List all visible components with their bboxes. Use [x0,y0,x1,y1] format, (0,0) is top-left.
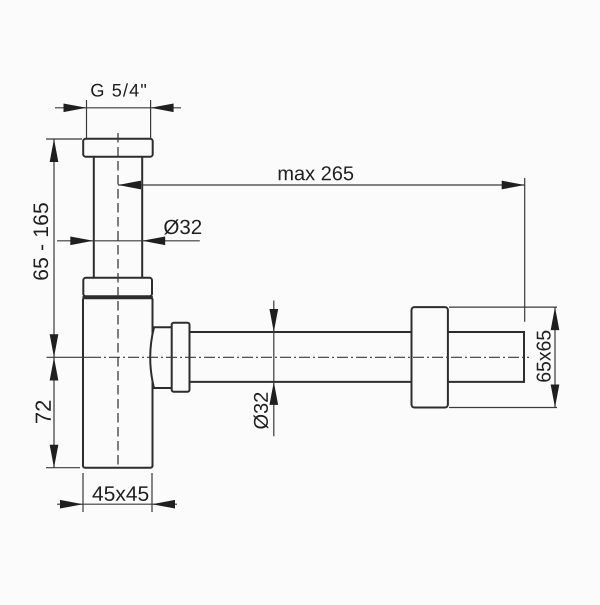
dimension 45x45: dimension line [57,503,177,505]
label 65x65 [537,331,551,382]
dimension max 265: left arrow [118,181,141,190]
dimension 65-165: bottom arrow [50,334,59,357]
outlet pipe end cap [523,331,525,383]
dimension 72: top arrow [50,358,59,381]
dimension 45x45: right arrow [152,500,175,509]
dimension G 5/4: dimension line [55,107,181,109]
label G 5/4" [91,83,146,96]
top flange nut (G 5/4) [83,139,153,157]
dimension max 265: dimension line [118,184,525,186]
inlet pipe left wall [93,157,95,278]
dimension 45x45: left arrow [60,500,83,509]
dimension max 265: right extension line [524,178,526,322]
dimension outlet diameter: bottom arrow [269,382,278,405]
dimension G 5/4: left arrow [64,103,87,112]
dimension 65x65: top arrow [551,307,560,330]
dimension 65-165: top extension line [46,138,82,140]
outlet pipe top wall (left of escutcheon) [190,331,412,333]
label outlet diameter Ø32 [253,393,268,429]
label 65 - 165 [33,203,48,280]
dimension outlet diameter: top arrow [269,309,278,332]
dimension 45x45: left extension line [82,473,84,512]
dimension G 5/4: right arrow [151,103,174,112]
dimension inlet diameter: right arrow [142,236,165,245]
compression olive at outlet [150,327,172,388]
outlet pipe bottom wall (left of escutcheon) [190,381,412,383]
dimension 65x65: dimension line [554,307,556,407]
dimension G 5/4: extension line left [86,100,88,139]
outlet nut [172,323,190,392]
dimension outlet diameter: dimension line [273,301,275,437]
vertical centerline of inlet pipe and body [117,133,119,468]
outlet pipe bottom wall (right of escutcheon) [448,381,524,383]
trap body [83,298,153,468]
dimension inlet diameter: dimension line [57,240,200,242]
trap body top nut [83,278,152,297]
dimension 72: bottom arrow [50,445,59,468]
outlet pipe top wall (right of escutcheon) [448,331,524,333]
dimension inlet diameter: left arrow [70,236,93,245]
inlet pipe right wall [141,157,143,278]
dimension G 5/4: extension line right [150,100,152,139]
dimension 65x65: top extension line [449,306,557,308]
label 45x45 [92,486,148,501]
horizontal centerline extension (left solid part) [47,356,91,358]
dimension max 265: right arrow [502,181,525,190]
label inlet diameter Ø32 [164,219,201,234]
wall escutcheon 65x65 [412,307,448,407]
dimension 65-165 and 72: shared dimension line [53,139,55,468]
dimension 72: bottom extension line [46,467,80,469]
dimension 65-165: top arrow [50,139,59,162]
label max 265 [279,166,354,180]
body top thick line [83,296,153,299]
horizontal dash-dot centerline of outlet pipe [90,356,529,358]
dimension 45x45: right extension line [151,473,153,512]
label 72 [35,401,50,423]
dimension 65x65: bottom arrow [551,385,560,408]
dimension 65x65: bottom extension line [449,407,557,409]
